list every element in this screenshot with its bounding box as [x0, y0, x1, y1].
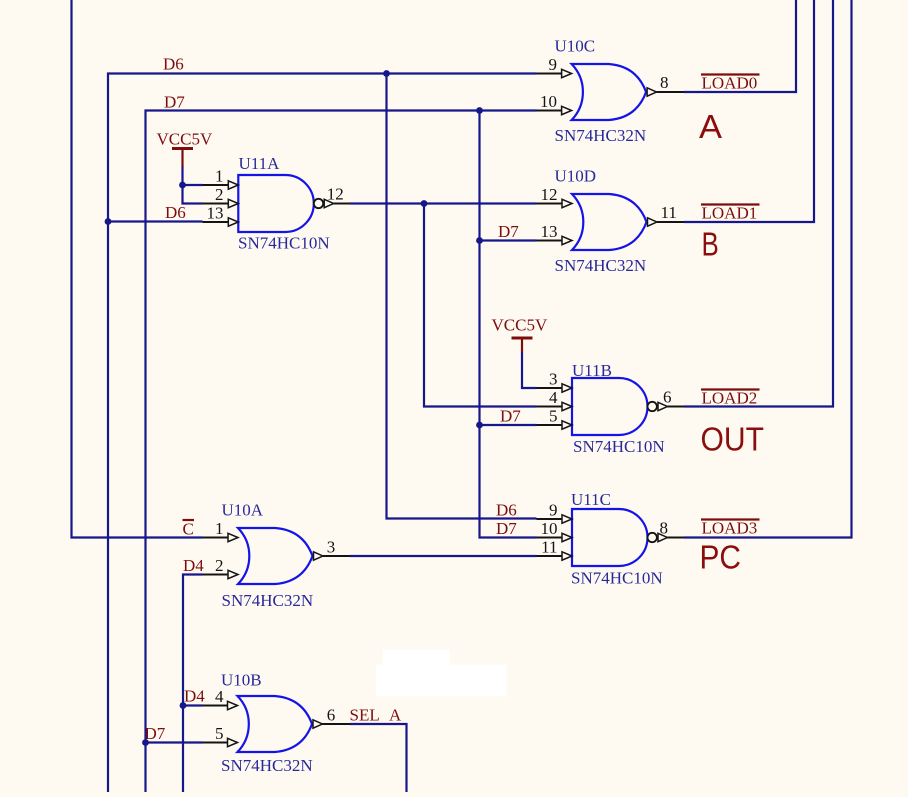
svg-text:5: 5: [215, 724, 224, 743]
pin 6 of U10B (output): [313, 720, 350, 728]
svg-text:6: 6: [663, 388, 672, 407]
or-gate U10C (SN74HC32N): [572, 64, 647, 120]
svg-text:U10B: U10B: [221, 671, 262, 690]
svg-text:11: 11: [661, 203, 677, 222]
svg-text:12: 12: [541, 185, 558, 204]
pin 11 of U11C: [537, 552, 573, 560]
node D7/U10B pin5 junction: [142, 739, 149, 746]
svg-text:U11B: U11B: [572, 361, 612, 380]
node D6/U11A pin13 junction: [105, 218, 112, 225]
pin 10 of U10C: [537, 106, 572, 114]
wire net D7: branch to U10D pin 13: [480, 239, 537, 241]
wire U11A output drop to U11B pin 4: [424, 204, 537, 407]
svg-text:10: 10: [541, 519, 558, 538]
svg-text:1: 1: [215, 167, 224, 186]
label net LOAD3 (active low): [701, 519, 760, 538]
svg-text:5: 5: [549, 407, 558, 426]
svg-text:LOAD1: LOAD1: [702, 204, 758, 223]
label net LOAD2 (active low): [701, 389, 760, 408]
svg-text:LOAD2: LOAD2: [702, 389, 758, 408]
wire net LOAD0 from U10C output up to top: [684, 0, 796, 92]
or-gate U10A (SN74HC32N): [238, 528, 313, 584]
pin 12 of U10D: [537, 199, 573, 207]
pin 2 of U11A: [203, 199, 239, 207]
wire net D7: branch to U11B pin 5: [480, 424, 537, 426]
power symbol VCC5V (U11A): [172, 149, 193, 167]
svg-text:D6: D6: [165, 203, 186, 222]
node D7/U10D pin13 junction: [476, 237, 483, 244]
label net C-bar (U10A pin1): [183, 520, 195, 539]
pin 3 of U10A (output): [314, 552, 351, 560]
label net LOAD0 (active low): [701, 74, 760, 93]
svg-text:LOAD3: LOAD3: [702, 519, 758, 538]
wire net D7: branch to U10B pin 5: [146, 741, 203, 743]
svg-text:U11A: U11A: [239, 154, 281, 173]
svg-text:C: C: [183, 520, 194, 539]
wire VCC5V feed to U11B pin 3: [522, 352, 537, 388]
svg-text:SN74HC32N: SN74HC32N: [222, 591, 314, 610]
wire VCC5V feed to U11A pins 1 and 2: [183, 166, 203, 204]
node D7/U11B pin5 junction: [476, 422, 483, 429]
node D7/U10C junction: [476, 107, 483, 114]
svg-text:4: 4: [215, 687, 224, 706]
svg-text:13: 13: [541, 222, 558, 241]
wire net D6: top horizontal to U10C pin 9 and vertical down left: [108, 74, 537, 793]
pin 5 of U10B: [203, 738, 238, 746]
pin 11 of U10D (output): [648, 218, 685, 226]
pin 1 of U10A: [203, 533, 239, 541]
pin 8 of U10C (output): [647, 88, 684, 96]
power symbol VCC5V (U11B): [512, 338, 533, 353]
node D4/U10B pin4 junction: [180, 702, 187, 709]
wire net D6: branch to U11A pin 13: [108, 220, 203, 222]
svg-text:SN74HC10N: SN74HC10N: [571, 569, 663, 588]
output bubble U11B: [648, 402, 657, 411]
wire net D7: vertical drop to U11C pin 10: [480, 111, 537, 538]
pin 9 of U11C: [537, 515, 573, 523]
svg-text:3: 3: [327, 538, 336, 557]
nand-gate U11C (SN74HC10N): [572, 509, 648, 566]
svg-text:D4: D4: [183, 556, 204, 575]
or-gate U10B (SN74HC32N): [238, 696, 313, 752]
svg-text:U10C: U10C: [555, 37, 596, 56]
pin 8 of U11C (output): [658, 533, 684, 541]
wire net D4: vertical from U10A pin 2 down: [183, 575, 203, 793]
wire U10A output to U11C pin 11: [350, 555, 537, 557]
wire net D7: top horizontal to U10C pin 10 and vertical down left: [146, 111, 537, 793]
svg-text:SN74HC10N: SN74HC10N: [573, 437, 665, 456]
pin 6 of U11B (output): [658, 402, 684, 410]
svg-text:9: 9: [549, 55, 558, 74]
pin 4 of U11B: [537, 402, 573, 410]
svg-text:D7: D7: [145, 724, 166, 743]
output bubble U11A: [314, 199, 323, 208]
svg-text:8: 8: [660, 519, 669, 538]
svg-text:D4: D4: [184, 687, 205, 706]
svg-text:4: 4: [549, 388, 558, 407]
svg-text:11: 11: [541, 538, 557, 557]
svg-text:2: 2: [215, 556, 224, 575]
wire net LOAD1 from U10D output up to top: [684, 0, 814, 222]
pin 13 of U11A: [203, 218, 239, 226]
svg-text:9: 9: [549, 501, 558, 520]
svg-text:U10D: U10D: [555, 167, 597, 186]
svg-text:OUT: OUT: [701, 421, 765, 458]
wire U11A output to U10D pin 12: [350, 202, 537, 204]
wire net D4: branch to U10B pin 4: [183, 704, 203, 706]
svg-text:A: A: [699, 108, 722, 145]
svg-text:VCC5V: VCC5V: [157, 130, 213, 149]
svg-text:SN74HC32N: SN74HC32N: [221, 756, 313, 775]
nand-gate U11B (SN74HC10N): [572, 378, 648, 435]
wire net C-bar: left vertical from top to U10A pin 1: [72, 0, 203, 538]
svg-text:PC: PC: [700, 539, 742, 576]
svg-text:D7: D7: [496, 519, 517, 538]
wire net SEL_A from U10B output down to bottom: [350, 724, 407, 792]
svg-text:D6: D6: [496, 501, 517, 520]
label net SEL_A (U10B output): [350, 706, 403, 725]
svg-text:LOAD0: LOAD0: [702, 74, 758, 93]
pin 2 of U10A: [203, 570, 239, 578]
wire VCC5V branch to U11A pin 1: [183, 184, 203, 186]
pin 13 of U10D: [537, 236, 573, 244]
svg-text:D7: D7: [498, 222, 519, 241]
pin 9 of U10C: [537, 69, 572, 77]
svg-text:U11C: U11C: [571, 490, 611, 509]
svg-text:2: 2: [215, 185, 224, 204]
pin 12 of U11A (output): [324, 199, 350, 207]
pin 10 of U11C: [537, 533, 573, 541]
svg-text:3: 3: [549, 370, 558, 389]
node VCC/U11A pin1 junction: [179, 182, 186, 189]
node U11A output junction: [421, 200, 428, 207]
nand-gate U11A (SN74HC10N): [238, 175, 313, 232]
svg-text:U10A: U10A: [222, 501, 264, 520]
svg-text:SEL: SEL: [350, 706, 380, 725]
output bubble U11C: [648, 533, 657, 542]
svg-text:D6: D6: [163, 55, 184, 74]
pin 5 of U11B: [537, 421, 573, 429]
wire net LOAD3 from U11C output up to top: [684, 0, 852, 538]
svg-text:A: A: [389, 706, 402, 725]
pin 1 of U11A: [203, 181, 239, 189]
pin 3 of U11B: [537, 384, 573, 392]
svg-text:SN74HC10N: SN74HC10N: [238, 234, 330, 253]
svg-text:8: 8: [660, 73, 669, 92]
svg-text:D7: D7: [164, 93, 185, 112]
svg-text:VCC5V: VCC5V: [492, 316, 548, 335]
svg-text:1: 1: [215, 519, 224, 538]
wire net D6: vertical drop to U11C pin 9: [387, 74, 537, 519]
erased area (white patch upper): [383, 650, 451, 666]
or-gate U10D (SN74HC32N): [572, 194, 647, 250]
label net LOAD1 (active low): [701, 204, 760, 223]
svg-text:D7: D7: [500, 407, 521, 426]
svg-text:SN74HC32N: SN74HC32N: [555, 256, 647, 275]
svg-text:13: 13: [207, 204, 224, 223]
pin 4 of U10B: [203, 701, 238, 709]
svg-text:B: B: [702, 226, 719, 263]
svg-text:6: 6: [327, 706, 336, 725]
node D6/U10C junction: [383, 70, 390, 77]
svg-text:SN74HC32N: SN74HC32N: [555, 126, 647, 145]
erased area (white patch lower): [376, 665, 507, 697]
svg-text:10: 10: [540, 92, 557, 111]
wire net LOAD2 from U11B output up to top: [684, 0, 833, 407]
svg-text:12: 12: [327, 185, 344, 204]
